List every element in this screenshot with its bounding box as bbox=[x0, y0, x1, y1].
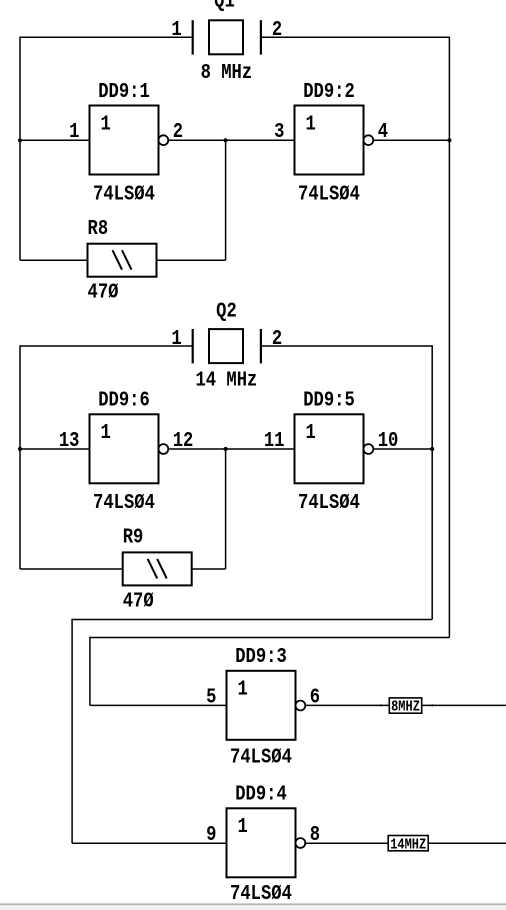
svg-text:6: 6 bbox=[310, 685, 320, 709]
svg-text:3: 3 bbox=[274, 119, 284, 143]
pin number DD9:6 input 13 bbox=[59, 428, 80, 452]
inverter DD9:4 output bubble bbox=[296, 838, 306, 848]
svg-text:DD9:2: DD9:2 bbox=[303, 79, 355, 103]
wire: R9 right bbox=[192, 568, 226, 570]
svg-text:8MHZ: 8MHZ bbox=[391, 699, 420, 715]
label DD9:1 refdes bbox=[98, 79, 150, 103]
svg-text:DD9:6: DD9:6 bbox=[98, 388, 150, 412]
svg-text:14 MHz: 14 MHz bbox=[195, 368, 257, 392]
svg-text:1: 1 bbox=[101, 420, 111, 444]
svg-text:1: 1 bbox=[171, 326, 181, 350]
pin number DD9:3 output 6 bbox=[310, 685, 320, 709]
svg-text:74LSØ4: 74LSØ4 bbox=[298, 491, 360, 515]
wire: 14MHz net horizontal bbox=[72, 619, 432, 621]
label Q1 value 8 MHz bbox=[201, 60, 253, 84]
wire joint dot bbox=[380, 704, 382, 706]
svg-text:74LSØ4: 74LSØ4 bbox=[93, 491, 155, 515]
svg-text:9: 9 bbox=[206, 822, 216, 846]
svg-text:1: 1 bbox=[306, 112, 316, 136]
wire: DD9:4 output to 14MHZ label bbox=[305, 842, 388, 844]
wire: 8MHZ label to edge bbox=[422, 704, 506, 706]
wire joint dot bbox=[431, 704, 433, 706]
junction dot DD9:1 output / R8 bbox=[224, 138, 228, 142]
label DD9:6 refdes bbox=[98, 388, 150, 412]
net label 8MHZ text bbox=[391, 699, 420, 715]
label DD9:6 part 74LS04 bbox=[93, 491, 155, 515]
label Q2 value 14 MHz bbox=[195, 368, 257, 392]
label Q2 refdes bbox=[216, 299, 237, 323]
svg-text:1: 1 bbox=[238, 677, 248, 701]
wire: R9 left bbox=[20, 568, 123, 570]
label Q1 refdes bbox=[214, 0, 235, 13]
label DD9:2 part 74LS04 bbox=[298, 182, 360, 206]
svg-text:1: 1 bbox=[101, 112, 111, 136]
label DD9:1 gate number 1 bbox=[101, 112, 111, 136]
svg-text:DD9:3: DD9:3 bbox=[235, 644, 287, 668]
label DD9:5 refdes bbox=[303, 388, 355, 412]
wire: Q2 top-right segment bbox=[261, 345, 432, 347]
wire: Q1 top-right segment bbox=[261, 36, 450, 38]
pin number Q1 pin 1 bbox=[171, 17, 181, 41]
wire: DD9:5 output to mid rail bbox=[373, 448, 432, 450]
junction dot DD9:5 output / mid rail bbox=[430, 447, 434, 451]
pin number DD9:6 output 12 bbox=[173, 428, 194, 452]
crystal Q1 symbol bbox=[193, 20, 261, 54]
svg-text:2: 2 bbox=[173, 119, 183, 143]
junction dot node pin1/left rail bbox=[18, 138, 22, 142]
wire: Q1 top-left segment bbox=[20, 36, 193, 38]
svg-text:1: 1 bbox=[306, 420, 316, 444]
pin number DD9:4 input 9 bbox=[206, 822, 216, 846]
svg-text:1: 1 bbox=[238, 814, 248, 838]
svg-text:2: 2 bbox=[272, 17, 282, 41]
label R8 refdes bbox=[88, 216, 109, 240]
label DD9:1 part 74LS04 bbox=[93, 182, 155, 206]
svg-text:12: 12 bbox=[173, 428, 194, 452]
op-amp inverter DD9:1 body bbox=[90, 106, 159, 175]
svg-text:DD9:4: DD9:4 bbox=[235, 782, 287, 806]
wire: DD9:6 output to DD9:5 input bbox=[168, 448, 295, 450]
resistor R9 bbox=[123, 552, 192, 585]
svg-text:R9: R9 bbox=[123, 525, 144, 549]
label DD9:2 refdes bbox=[303, 79, 355, 103]
svg-text:14MHZ: 14MHZ bbox=[390, 837, 426, 853]
wire: mid rail (DD9:5 output net) bbox=[431, 345, 433, 619]
wire: mid vertical to R9 bbox=[225, 449, 227, 569]
svg-text:74LSØ4: 74LSØ4 bbox=[230, 745, 292, 769]
op-amp inverter DD9:4 body bbox=[227, 808, 296, 877]
junction dot DD9:6 output / R9 bbox=[224, 447, 228, 451]
label R9 value 470 bbox=[123, 589, 154, 613]
pin number Q1 pin 2 bbox=[272, 17, 282, 41]
label DD9:6 gate number 1 bbox=[101, 420, 111, 444]
svg-text:47Ø: 47Ø bbox=[88, 280, 119, 304]
svg-text:47Ø: 47Ø bbox=[123, 589, 154, 613]
label R8 value 470 bbox=[88, 280, 119, 304]
op-amp inverter DD9:2 body bbox=[295, 106, 364, 175]
svg-text:DD9:1: DD9:1 bbox=[98, 79, 150, 103]
pin number DD9:1 input 1 bbox=[69, 119, 79, 143]
inverter DD9:1 output bubble bbox=[159, 135, 169, 145]
crystal Q2 symbol bbox=[193, 329, 261, 363]
label DD9:2 gate number 1 bbox=[306, 112, 316, 136]
op-amp inverter DD9:3 body bbox=[227, 671, 296, 740]
svg-text:R8: R8 bbox=[88, 216, 109, 240]
pin number DD9:2 input 3 bbox=[274, 119, 284, 143]
pin number DD9:4 output 8 bbox=[310, 822, 320, 846]
svg-text:13: 13 bbox=[59, 428, 80, 452]
inverter DD9:3 output bubble bbox=[296, 701, 306, 711]
junction dot DD9:2 output / right rail bbox=[447, 138, 451, 142]
label R9 refdes bbox=[123, 525, 144, 549]
wire: DD9:1 output to DD9:2 input bbox=[168, 139, 295, 141]
wire: 8MHz net vertical bbox=[89, 637, 91, 706]
resistor R8 bbox=[88, 244, 157, 277]
svg-text:74LSØ4: 74LSØ4 bbox=[93, 182, 155, 206]
pin number DD9:5 output 10 bbox=[378, 428, 399, 452]
wire: right rail (DD9:2 output net) bbox=[448, 37, 450, 638]
svg-text:2: 2 bbox=[272, 326, 282, 350]
net label 14MHZ text bbox=[390, 837, 426, 853]
svg-text:8 MHz: 8 MHz bbox=[201, 60, 253, 84]
wire: DD9:6 input pin 13 bbox=[20, 448, 90, 450]
label DD9:5 gate number 1 bbox=[306, 420, 316, 444]
inverter DD9:5 output bubble bbox=[364, 444, 374, 454]
label DD9:3 gate number 1 bbox=[238, 677, 248, 701]
svg-text:11: 11 bbox=[264, 428, 285, 452]
svg-text:74LSØ4: 74LSØ4 bbox=[298, 182, 360, 206]
wire: DD9:3 output to 8MHZ label bbox=[305, 704, 389, 706]
pin number DD9:5 input 11 bbox=[264, 428, 285, 452]
svg-text:10: 10 bbox=[378, 428, 399, 452]
pin number DD9:2 output 4 bbox=[378, 119, 389, 143]
wire: DD9:2 output to right rail bbox=[373, 139, 449, 141]
wire: R8 right bbox=[157, 259, 226, 261]
inverter DD9:6 output bubble bbox=[159, 444, 169, 454]
net label 8MHZ box bbox=[389, 698, 421, 713]
label DD9:5 part 74LS04 bbox=[298, 491, 360, 515]
svg-text:1: 1 bbox=[69, 119, 79, 143]
svg-text:Q2: Q2 bbox=[216, 299, 237, 323]
wire: 14MHz net vertical bbox=[71, 619, 73, 844]
pin number DD9:1 output 2 bbox=[173, 119, 183, 143]
pin number Q2 pin 1 bbox=[171, 326, 181, 350]
pin number Q2 pin 2 bbox=[272, 326, 282, 350]
net label 14MHZ box bbox=[388, 836, 428, 851]
wire: 14MHZ label to edge bbox=[428, 842, 506, 844]
page bottom band bbox=[0, 905, 506, 910]
wire: DD9:3 input pin 5 bbox=[90, 704, 227, 706]
label DD9:4 part 74LS04 bbox=[230, 882, 292, 906]
svg-text:DD9:5: DD9:5 bbox=[303, 388, 355, 412]
wire: Q2 top-left segment bbox=[20, 345, 193, 347]
wire: left rail section 2 bbox=[19, 345, 21, 569]
svg-text:Q1: Q1 bbox=[214, 0, 235, 13]
page bottom separator line bbox=[0, 903, 506, 905]
junction dot pin13/left rail bbox=[18, 447, 22, 451]
wire: left rail section 1 bbox=[19, 37, 21, 261]
wire: DD9:4 input pin 9 bbox=[72, 842, 226, 844]
label DD9:4 gate number 1 bbox=[238, 814, 248, 838]
svg-text:5: 5 bbox=[206, 685, 216, 709]
op-amp inverter DD9:5 body bbox=[295, 414, 364, 483]
wire: DD9:1 input pin 1 bbox=[20, 139, 90, 141]
label DD9:4 refdes bbox=[235, 782, 287, 806]
svg-text:1: 1 bbox=[171, 17, 181, 41]
svg-text:4: 4 bbox=[378, 119, 389, 143]
wire: mid vertical to R8 bbox=[225, 140, 227, 260]
inverter DD9:2 output bubble bbox=[364, 135, 374, 145]
wire: 8MHz net horizontal bbox=[90, 637, 450, 639]
pin number DD9:3 input 5 bbox=[206, 685, 216, 709]
label DD9:3 refdes bbox=[235, 644, 287, 668]
op-amp inverter DD9:6 body bbox=[90, 414, 159, 483]
svg-text:8: 8 bbox=[310, 822, 320, 846]
label DD9:3 part 74LS04 bbox=[230, 745, 292, 769]
wire: R8 left bbox=[20, 259, 88, 261]
svg-text:74LSØ4: 74LSØ4 bbox=[230, 882, 292, 906]
